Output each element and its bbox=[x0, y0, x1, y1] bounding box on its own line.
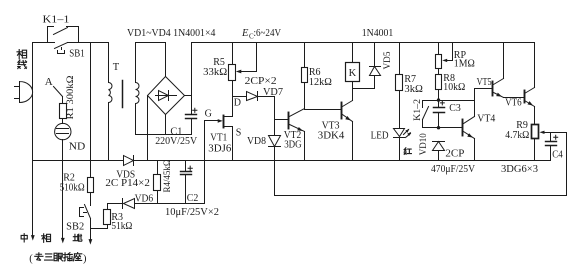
label 3DG6×3 bbox=[501, 164, 538, 175]
label R5 33k&#937; bbox=[203, 57, 227, 78]
wire top mains rail bbox=[33, 42, 109, 44]
LED indicator bbox=[394, 129, 412, 138]
diode VD8 bbox=[269, 136, 281, 147]
label 2C P14×2 bbox=[105, 178, 149, 189]
label VT1 bbox=[210, 132, 227, 143]
svg-text:(: ( bbox=[29, 253, 33, 264]
diode VD5 bbox=[370, 43, 381, 89]
wire R2 branch bbox=[90, 161, 92, 178]
svg-text:): ) bbox=[83, 253, 87, 264]
svg-text:2C P14×2: 2C P14×2 bbox=[105, 178, 149, 189]
label C3 bbox=[449, 103, 461, 114]
svg-text:12kΩ: 12kΩ bbox=[309, 77, 332, 88]
label VD5 bbox=[383, 51, 393, 69]
svg-text:D: D bbox=[234, 98, 241, 109]
svg-text:470μF/25V: 470μF/25V bbox=[431, 164, 476, 175]
wire VT6 collector bbox=[534, 43, 536, 88]
relay contact K1-1 bbox=[48, 27, 79, 43]
wire gate bias sub-rail bbox=[108, 203, 205, 205]
pushbutton SB2 bbox=[80, 205, 91, 219]
svg-text:3DG: 3DG bbox=[284, 139, 302, 150]
label VD7 bbox=[263, 87, 283, 98]
label VT2 bbox=[284, 130, 302, 141]
wire sub-rail to rail connector bbox=[204, 161, 206, 204]
transistor VT6 bbox=[525, 88, 535, 107]
wire SB2 bottom to R3 bbox=[91, 219, 108, 229]
label K1-2 bbox=[413, 99, 423, 121]
label C4 bbox=[552, 149, 563, 160]
svg-text:ND: ND bbox=[69, 142, 86, 153]
label (去三眼插座) bbox=[29, 253, 87, 265]
label SB1 bbox=[69, 48, 85, 59]
svg-text:VT6: VT6 bbox=[505, 98, 521, 109]
svg-text:3DG6×3: 3DG6×3 bbox=[501, 164, 538, 175]
label R7 3k&#937; bbox=[404, 74, 423, 95]
resistor R6 bbox=[302, 43, 308, 109]
resistor R5 bbox=[229, 43, 236, 97]
label VD8 bbox=[247, 136, 266, 147]
wiper of R9 bbox=[540, 131, 567, 134]
label G bbox=[205, 108, 212, 119]
label T bbox=[113, 62, 120, 73]
transistor VT4 bbox=[463, 117, 475, 139]
resistor R8 bbox=[436, 75, 442, 101]
svg-text:4.7kΩ: 4.7kΩ bbox=[505, 130, 529, 141]
label D bbox=[234, 98, 241, 109]
svg-text:VT4: VT4 bbox=[477, 113, 495, 124]
transformer T core bbox=[122, 81, 124, 108]
wire earth lead bbox=[89, 229, 93, 245]
neon lamp ND bbox=[55, 123, 71, 139]
wire VT4 base line bbox=[423, 126, 463, 129]
svg-text:VT1: VT1 bbox=[210, 132, 227, 143]
svg-text:K: K bbox=[349, 68, 357, 79]
label 3DJ6 bbox=[208, 144, 231, 155]
bridge rectifier VD1-VD4 bbox=[148, 77, 185, 115]
wire VT3 base bbox=[305, 109, 342, 111]
svg-text:510kΩ: 510kΩ bbox=[60, 182, 85, 193]
label 220V/25V bbox=[155, 136, 198, 147]
svg-text:10kΩ: 10kΩ bbox=[443, 82, 465, 93]
label VD10 bbox=[419, 133, 429, 155]
label VT6 bbox=[505, 98, 521, 109]
label VDS bbox=[116, 169, 135, 180]
transistor VT2 bbox=[289, 109, 305, 132]
resistor R3 bbox=[104, 204, 111, 229]
wire R1 to ND bbox=[62, 119, 64, 124]
svg-text:3DJ6: 3DJ6 bbox=[208, 144, 231, 155]
wire VT3 collector bbox=[352, 82, 354, 101]
svg-text:R1 300kΩ: R1 300kΩ bbox=[66, 76, 76, 120]
resistor R1 bbox=[60, 104, 67, 119]
svg-text:VD8: VD8 bbox=[247, 136, 266, 147]
svg-text:SB2: SB2 bbox=[66, 222, 84, 233]
wire drain node D bbox=[233, 96, 247, 98]
wire A to R1 bbox=[62, 97, 64, 104]
svg-text:VD6: VD6 bbox=[135, 194, 154, 205]
wire bridge plus output bbox=[185, 43, 192, 115]
wire VT4 collector to VT5 base bbox=[474, 89, 476, 117]
label 470μF/25V bbox=[431, 164, 476, 175]
svg-text:S: S bbox=[236, 127, 242, 138]
label 相线 (phase wire) bbox=[17, 50, 27, 69]
label 相 (phase) bbox=[42, 234, 51, 243]
svg-text:C3: C3 bbox=[449, 103, 461, 114]
svg-text:2CP: 2CP bbox=[445, 149, 464, 160]
diode VD10 bbox=[433, 142, 445, 161]
label R1 300k&#937; bbox=[66, 76, 76, 120]
pushbutton SB1 bbox=[55, 43, 68, 54]
svg-text:VD1~VD4 1N4001×4: VD1~VD4 1N4001×4 bbox=[127, 28, 216, 39]
svg-text:K1–1: K1–1 bbox=[43, 14, 70, 25]
wire bridge bottom corner bbox=[165, 115, 167, 135]
label Ec 6~24V bbox=[241, 28, 282, 40]
label SB2 bbox=[66, 222, 84, 233]
wire feedback bottom line bbox=[275, 195, 567, 197]
wire left phase vertical bbox=[32, 43, 34, 237]
wiper of RP bbox=[442, 43, 452, 63]
label R2 510k&#937; bbox=[60, 173, 85, 194]
wire VT5 emitter to VT6 base bbox=[504, 97, 524, 99]
label K1-1 bbox=[43, 14, 70, 25]
svg-text:10μF/25V×2: 10μF/25V×2 bbox=[165, 207, 219, 218]
relay coil K bbox=[346, 43, 360, 82]
diode VD7 bbox=[247, 92, 258, 101]
svg-text:51kΩ: 51kΩ bbox=[111, 221, 132, 232]
relay contact K1-2 bbox=[423, 101, 429, 128]
capacitor C3 bbox=[434, 101, 445, 128]
label 2CP×2 bbox=[245, 76, 277, 87]
label R3 51k&#937; bbox=[111, 212, 132, 232]
potentiometer R9 bbox=[532, 125, 539, 161]
label R8 10k&#937; bbox=[443, 73, 465, 93]
svg-text:2CP×2: 2CP×2 bbox=[245, 76, 277, 87]
wire secondary bottom link bbox=[136, 134, 192, 136]
label C1 bbox=[170, 127, 182, 138]
label R4/45k&#937; bbox=[163, 160, 173, 193]
wire SB1 branch vertical bbox=[90, 43, 92, 161]
wire VT2 emitter to rail bbox=[304, 132, 306, 161]
svg-text:VD10: VD10 bbox=[419, 133, 429, 155]
svg-text:R4/45kΩ: R4/45kΩ bbox=[163, 160, 173, 193]
label VD6 bbox=[135, 194, 154, 205]
wire bottom mains rail bbox=[33, 160, 551, 162]
svg-text:SB1: SB1 bbox=[69, 48, 85, 59]
svg-text:A: A bbox=[45, 76, 53, 88]
wire VT2 base bbox=[275, 119, 289, 121]
wire secondary top to bridge bbox=[136, 43, 166, 77]
wire Ec positive rail bbox=[192, 42, 535, 44]
capacitor C2 bbox=[181, 161, 193, 204]
svg-text:3kΩ: 3kΩ bbox=[404, 84, 423, 95]
svg-text:VD5: VD5 bbox=[383, 51, 393, 69]
capacitor C4 bbox=[546, 133, 558, 161]
svg-text:3DK4: 3DK4 bbox=[318, 130, 345, 141]
wire VT5 collector bbox=[503, 43, 505, 79]
label R9 4.7k&#937; bbox=[505, 120, 529, 141]
wire bridge minus to bottom rail bbox=[147, 96, 149, 161]
transistor VT3 bbox=[342, 101, 353, 122]
plug symbol bbox=[15, 82, 33, 103]
label 2CP bbox=[445, 149, 464, 160]
label 中 (neutral) bbox=[21, 234, 27, 242]
svg-text:G: G bbox=[205, 108, 212, 119]
label ND bbox=[69, 142, 86, 153]
wire VT6 emitter to R9 bbox=[534, 107, 536, 125]
wire VD7 to VD8 node bbox=[258, 97, 275, 136]
wire phase arrow bbox=[61, 161, 65, 244]
resistor R2 bbox=[88, 178, 94, 193]
wire VD8 to feedback line bbox=[274, 147, 276, 196]
node A touch electrode bbox=[45, 76, 63, 97]
label LED bbox=[371, 131, 389, 142]
potentiometer RP bbox=[436, 43, 442, 75]
svg-text:E: E bbox=[241, 28, 249, 39]
label VT4 bbox=[477, 113, 495, 124]
svg-text:C2: C2 bbox=[187, 193, 199, 204]
svg-text:LED: LED bbox=[371, 131, 389, 142]
svg-text::6~24V: :6~24V bbox=[254, 28, 282, 39]
label S bbox=[236, 127, 242, 138]
wire ND to bottom rail bbox=[62, 140, 64, 161]
wiper of R5 bbox=[236, 43, 257, 74]
svg-text:1N4001: 1N4001 bbox=[362, 28, 394, 39]
label 10μF/25V×2 bbox=[165, 207, 219, 218]
svg-text:33kΩ: 33kΩ bbox=[203, 67, 227, 78]
label VT5 bbox=[477, 77, 492, 88]
label 3DK4 bbox=[318, 130, 345, 141]
resistor R7 bbox=[396, 43, 403, 129]
wire neutral arrow bbox=[31, 235, 35, 241]
diode VD6 bbox=[123, 199, 135, 209]
wire R2 to SB2 bbox=[90, 193, 92, 206]
svg-text:T: T bbox=[113, 62, 120, 73]
wire LED cathode bbox=[399, 138, 401, 161]
wire VT4 emitter to rail bbox=[474, 139, 476, 161]
svg-text:220V/25V: 220V/25V bbox=[155, 136, 198, 147]
wire gate bias vertical bbox=[204, 121, 206, 204]
wire feedback right vertical bbox=[566, 133, 568, 196]
label R6 12k&#937; bbox=[309, 67, 332, 88]
resistor R4 bbox=[154, 161, 161, 204]
wire VD5 branch bbox=[353, 88, 375, 90]
label 地 (earth) bbox=[73, 234, 82, 241]
transformer T secondary bbox=[136, 43, 140, 135]
label 3DG bbox=[284, 139, 302, 150]
label 1N4001 bbox=[362, 28, 394, 39]
label VD1~VD4 1N4001×4 bbox=[127, 28, 216, 39]
transformer T primary bbox=[109, 43, 113, 161]
wire base node line bbox=[423, 98, 475, 101]
label RP 1M&#937; bbox=[454, 50, 475, 69]
svg-text:VT5: VT5 bbox=[477, 77, 492, 88]
label C2 bbox=[187, 193, 199, 204]
svg-text:C4: C4 bbox=[552, 149, 563, 160]
svg-text:1MΩ: 1MΩ bbox=[454, 59, 475, 70]
diode VDS bbox=[124, 156, 134, 166]
label VT3 bbox=[322, 120, 340, 131]
wire VT3 emitter to rail bbox=[352, 122, 354, 161]
capacitor C1 bbox=[186, 108, 197, 134]
transistor VT5 bbox=[475, 79, 504, 98]
svg-text:K1–2: K1–2 bbox=[413, 99, 423, 121]
jfet VT1 bbox=[205, 97, 233, 161]
label 红 (red) bbox=[404, 148, 411, 155]
